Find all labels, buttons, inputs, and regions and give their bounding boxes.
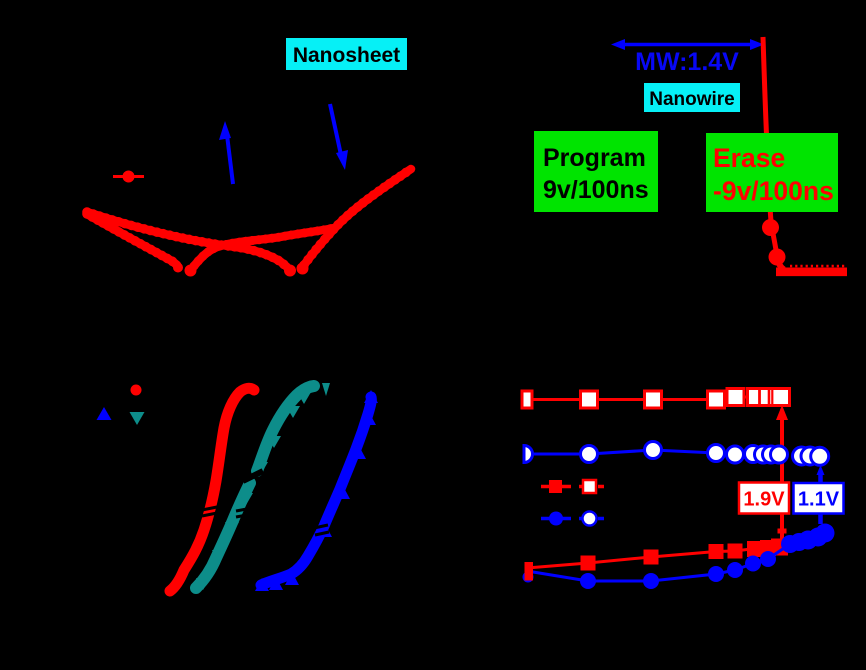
teal transfer curve lower segment <box>196 483 250 588</box>
butterfly trace B rise from left dip, flat to right <box>194 228 334 266</box>
bottom red squares filled <box>581 539 789 571</box>
bottom blue circles filled <box>580 524 835 590</box>
panel b: program/erase transient <box>534 37 847 272</box>
teal transfer curve upper segment <box>257 386 314 471</box>
legend dashed red with squares <box>541 480 604 493</box>
legend blue up triangle <box>97 407 112 420</box>
1.1V label <box>794 483 844 514</box>
svg-text:-9v/100ns: -9v/100ns <box>713 176 834 206</box>
black dashes on blue <box>314 525 328 528</box>
blue up arrow <box>817 465 825 524</box>
1.9V label <box>739 483 789 514</box>
butterfly trace C steep right rise <box>304 169 411 265</box>
dip markers right <box>284 265 296 277</box>
svg-text:Erase: Erase <box>713 143 785 173</box>
legend marker red circle with line <box>113 171 144 183</box>
Erase box <box>706 133 838 212</box>
Program box <box>534 131 658 212</box>
black dashes on teal <box>236 508 252 511</box>
svg-text:1.1V: 1.1V <box>798 489 840 511</box>
svg-text:Nanosheet: Nanosheet <box>293 44 400 67</box>
red up arrow <box>776 405 788 546</box>
red erase curve vertical <box>763 37 771 222</box>
red transfer curve <box>170 388 254 591</box>
blue arrow up <box>219 121 233 184</box>
top red series line <box>524 397 788 400</box>
Nanowire label <box>644 83 740 112</box>
svg-text:9v/100ns: 9v/100ns <box>543 176 649 204</box>
erase curve circle markers <box>762 219 779 236</box>
cluster divider lines <box>760 388 773 406</box>
butterfly trace D steep left descent <box>87 214 177 265</box>
svg-text:1.9V: 1.9V <box>743 489 785 511</box>
blue double arrow MW <box>611 39 764 50</box>
butterfly trace A gentle left to right dip <box>87 212 287 267</box>
bottom blue series line <box>527 533 825 581</box>
panel c: transfer curves <box>97 383 379 591</box>
black gap cut on teal <box>243 471 263 481</box>
bottom-left clipped markers <box>523 562 534 583</box>
blue transfer curve <box>261 397 371 585</box>
dip markers left <box>173 263 183 273</box>
legend teal down triangle <box>130 412 145 425</box>
legend dashed blue with circles <box>541 512 604 526</box>
top red squares white filled <box>522 389 790 409</box>
panel d: retention <box>522 388 844 589</box>
svg-text:Program: Program <box>543 144 646 172</box>
red tick marker on arrow shaft <box>778 529 787 534</box>
blue arrow down <box>330 104 348 170</box>
panel a: butterfly C-V curve <box>87 38 411 277</box>
svg-text:MW:1.4V: MW:1.4V <box>635 48 739 76</box>
teal scattered triangles <box>322 383 330 396</box>
erase curve tail thick band <box>776 267 847 276</box>
svg-text:Nanowire: Nanowire <box>649 89 735 110</box>
black dashes on red <box>202 507 217 510</box>
blue scattered triangles <box>255 578 269 591</box>
Nanosheet label <box>286 38 407 70</box>
top blue circles white filled <box>524 442 829 466</box>
blue top series line <box>524 450 780 455</box>
legend red circle <box>131 385 142 396</box>
bottom red series line <box>527 547 780 569</box>
